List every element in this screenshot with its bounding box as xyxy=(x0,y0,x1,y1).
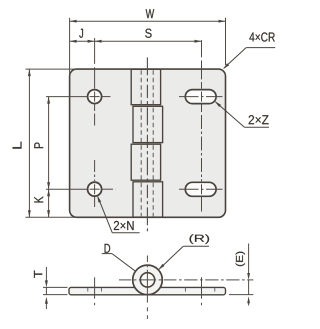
slot edge tick right xyxy=(214,287,216,291)
P dimension line xyxy=(48,97,50,190)
top-left hole centerline horizontal xyxy=(46,96,88,98)
hinge axis centerline xyxy=(146,57,148,231)
E dimension connector xyxy=(248,280,250,295)
slot axis centerline vertical xyxy=(201,40,203,57)
E extension bottom xyxy=(229,294,253,296)
K label xyxy=(34,196,43,202)
T extension top xyxy=(43,286,68,288)
J label xyxy=(79,29,83,38)
side view axis vertical centerline xyxy=(146,256,148,263)
slot edge tick left xyxy=(184,287,186,291)
bottom slot centerline horizontal xyxy=(179,188,199,190)
bottom-left hole xyxy=(88,182,102,196)
W label xyxy=(146,9,155,18)
L dimension extension top xyxy=(26,68,78,70)
side view leaf bar xyxy=(69,287,226,294)
T dimension connector xyxy=(45,287,47,294)
pin hole inner circle xyxy=(140,273,154,287)
top slot centerline horizontal xyxy=(179,96,199,98)
K dimension line xyxy=(48,189,50,217)
knuckle outer circle xyxy=(133,265,163,295)
E dimension line lower xyxy=(248,303,250,306)
2xN leader xyxy=(112,232,139,234)
hole edge tick right xyxy=(100,287,102,291)
side view slot centerline xyxy=(201,277,203,298)
top-left hole centerline vertical xyxy=(94,38,96,64)
side view hole centerline xyxy=(94,277,96,298)
hidden pin hole line right xyxy=(152,70,154,216)
knuckle segment 3 xyxy=(131,144,160,180)
bottom-left hole centerline horizontal xyxy=(46,188,88,190)
S label xyxy=(145,29,151,38)
2xZ label xyxy=(249,115,254,124)
4xCR label xyxy=(249,33,254,42)
bottom-left hole centerline vertical xyxy=(94,160,96,172)
hidden pin hole line left xyxy=(140,70,142,216)
top-left hole xyxy=(88,90,102,104)
knuckle segment 4 xyxy=(133,182,163,217)
T dimension line lower xyxy=(45,303,47,309)
T dimension line upper xyxy=(45,267,47,282)
E dimension line upper xyxy=(248,244,250,275)
(E) label xyxy=(236,263,245,266)
top slot 2xZ xyxy=(185,90,216,104)
J dimension line xyxy=(70,40,95,42)
hole edge tick left xyxy=(87,287,89,291)
D leader xyxy=(102,253,112,255)
D label xyxy=(105,244,111,253)
2xZ leader xyxy=(244,126,269,128)
knuckle segment 2 xyxy=(133,106,163,142)
W dimension extension right xyxy=(225,18,227,65)
(R) label xyxy=(190,234,194,244)
side view horizontal centerline xyxy=(119,279,131,281)
T label xyxy=(34,270,42,277)
L dimension extension bottom xyxy=(26,216,79,218)
knuckle segment 1 xyxy=(131,69,160,104)
P label xyxy=(34,143,43,149)
T extension bottom xyxy=(43,294,68,296)
4xCR leader xyxy=(246,47,275,49)
hinge plate (top view) xyxy=(70,69,226,217)
W dimension line xyxy=(70,20,226,22)
W dimension extension left xyxy=(69,18,71,76)
bottom slot xyxy=(185,182,216,196)
(R) leader xyxy=(183,245,209,247)
S dimension line xyxy=(95,40,202,42)
L label xyxy=(13,142,22,149)
2xN label xyxy=(114,221,119,230)
L dimension line xyxy=(28,69,30,217)
